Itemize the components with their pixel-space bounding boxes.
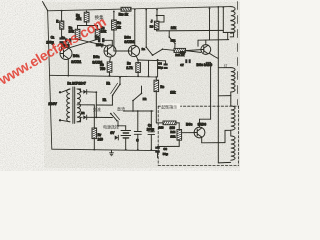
wire x210 down to BG6: [210, 62, 212, 119]
wire K2-1 to R11: [174, 44, 176, 49]
svg-text:BG5 3AD6: BG5 3AD6: [197, 63, 213, 67]
wire K1 pole to mid rail: [119, 78, 121, 85]
resistor R2: [75, 29, 80, 39]
transformer T1 core: [73, 87, 75, 123]
svg-text:R13: R13: [159, 126, 165, 130]
wire top positive rail: [48, 7, 231, 11]
capacitor C7: [185, 59, 190, 63]
svg-text:3AX31: 3AX31: [124, 40, 134, 44]
svg-text:200μ: 200μ: [147, 128, 154, 132]
relay coil J loop: [157, 16, 164, 23]
wire bus y111: [123, 110, 153, 112]
wire up to tap: [224, 130, 226, 142]
wire R5 to mid rail: [109, 72, 111, 76]
wire switch node down: [157, 60, 159, 77]
svg-text:R14: R14: [170, 130, 176, 134]
svg-text:交流: 交流: [93, 106, 101, 112]
wire: [80, 117, 82, 122]
svg-text:J: J: [151, 20, 153, 24]
wire C8 to ground rail: [137, 134, 139, 150]
wire x223 from rail: [222, 7, 224, 30]
wire mid emitter rail: [49, 75, 157, 77]
resistor R8 12k: [154, 80, 159, 91]
svg-text:2k: 2k: [117, 25, 121, 29]
wire to C8: [137, 111, 139, 131]
svg-text:2.7k: 2.7k: [126, 66, 132, 70]
winding T2 S4: [231, 106, 235, 130]
svg-text:230V: 230V: [48, 102, 57, 106]
wire center tap: [77, 104, 94, 106]
wire R14 down: [178, 140, 180, 146]
svg-text:R10 1k: R10 1k: [119, 12, 129, 16]
wire C3 to BG2: [105, 39, 113, 41]
wire D1 out: [87, 91, 97, 93]
winding T2 S2: [231, 21, 235, 33]
wire to C6: [158, 145, 180, 147]
svg-text:50μ: 50μ: [163, 152, 168, 156]
wire R9 to ladder: [156, 30, 158, 31]
wire mains top: [61, 89, 70, 92]
wire rectifier join: [95, 92, 97, 117]
wire hook down: [165, 61, 167, 64]
wire to battery: [118, 125, 126, 127]
transistor BG3 3AX31: [128, 45, 139, 56]
wire BG3 emitter: [136, 56, 138, 60]
wire lower bus left: [96, 116, 112, 118]
svg-text:6V: 6V: [110, 131, 115, 135]
wire BG6 base to R14: [182, 132, 195, 134]
svg-text:3AX31: 3AX31: [71, 60, 81, 64]
wire to R2: [77, 26, 79, 30]
wire emitter right: [202, 142, 225, 144]
capacitor C4 20u: [164, 63, 168, 69]
switch K1 pole B: [110, 113, 118, 122]
diode D2: [83, 115, 86, 119]
wire tap S3 bottom: [218, 95, 231, 97]
antenna mark top-left: [43, 2, 48, 11]
svg-text:390: 390: [170, 126, 176, 130]
wire x218 full drop: [217, 7, 219, 163]
svg-text:12k: 12k: [170, 135, 175, 139]
label indicator: [161, 103, 180, 109]
wire rail down x209: [209, 8, 211, 40]
resistor R11 1k: [174, 48, 186, 52]
battery 6V: [121, 131, 131, 150]
wire vertical x227: [227, 33, 229, 40]
wire R8 down: [155, 92, 157, 123]
svg-text:起辉指示: 起辉指示: [161, 103, 177, 109]
relay contact J1: [145, 46, 153, 55]
transformer T1 secondary: [77, 89, 81, 122]
winding T2 S5: [231, 136, 235, 160]
wire cross R3 to BG1 base: [68, 39, 98, 48]
capacitor C6 50u: [155, 147, 160, 153]
capacitor C3 160u: [98, 38, 105, 42]
wire top rail down to R: [61, 11, 63, 21]
resistor R4 2k: [112, 20, 117, 30]
capacitor C8: [134, 132, 141, 135]
svg-text:BG6: BG6: [186, 123, 193, 127]
svg-text:47k: 47k: [76, 17, 82, 21]
wire R1 bottom: [86, 22, 88, 26]
wire K2-3 down to bus: [132, 101, 134, 111]
wire to x210: [200, 118, 211, 120]
wire BG5 emitter diagonal: [209, 53, 218, 58]
wire x223 stub: [222, 30, 224, 32]
switch K1 pole B second bar: [114, 113, 120, 120]
wire up to contact: [111, 96, 113, 106]
wire R11 to BG5 base: [186, 50, 201, 51]
wire base-supply node: [78, 25, 98, 27]
wire CT down: [93, 105, 95, 128]
wire rail to relay node: [156, 10, 158, 16]
resistor R3: [95, 29, 100, 39]
wire R11 to BG5 base: [186, 51, 201, 53]
dashed box lamp indicator: [158, 106, 238, 165]
wire down to mid rail: [148, 61, 150, 77]
wire S3 join: [230, 92, 232, 96]
svg-text:2a: 2a: [142, 47, 146, 51]
wire S4-S5 link: [230, 130, 232, 136]
svg-text:20μ: 20μ: [157, 66, 162, 70]
resistor R: [60, 21, 64, 29]
resistor R13 390: [163, 121, 176, 125]
wire battery top: [125, 126, 127, 131]
resistor R9 22k: [154, 21, 159, 29]
wire tap S3 top: [218, 67, 231, 69]
wire stub: [206, 61, 211, 63]
wire secondary top: [77, 88, 81, 90]
svg-text:R12: R12: [180, 51, 186, 55]
svg-text:BG3: BG3: [124, 36, 131, 40]
wire R6 to mid rail: [137, 72, 139, 76]
wire R13 to R14: [176, 122, 179, 124]
svg-text:160μ: 160μ: [96, 43, 103, 47]
ground: [110, 150, 114, 155]
wire down to base node: [197, 40, 199, 46]
capacitor C1 200u: [59, 37, 63, 43]
resistor R1: [84, 12, 89, 22]
switch K2-2: [152, 48, 163, 55]
wire BG2 collector up: [111, 40, 113, 46]
wire rail down to contact J1: [145, 9, 147, 46]
resistor R6 2.7k: [136, 63, 141, 73]
wire BG1 collector up: [67, 42, 69, 48]
wire R to C1: [61, 29, 63, 37]
svg-text:22k: 22k: [171, 26, 177, 30]
wire R7 to ground rail: [93, 139, 95, 150]
capacitor C5 200u: [148, 132, 155, 135]
wire mains bottom: [61, 120, 70, 122]
wire to S4 bottom: [225, 129, 231, 131]
switch K2-3: [132, 93, 142, 102]
switch K2-1: [168, 36, 175, 44]
svg-text:750: 750: [100, 67, 106, 71]
transistor BG1 3AX31: [60, 48, 72, 60]
wire to R3: [97, 26, 99, 30]
transistor BG5 3AD6: [201, 45, 211, 55]
svg-text:D1 2CP21×7: D1 2CP21×7: [67, 82, 86, 86]
wire C1 to BG1 base: [61, 44, 63, 50]
wire K2-3 up: [141, 86, 143, 93]
page edge dashed right: [236, 2, 238, 106]
winding T2 S3: [231, 68, 235, 92]
wire D2 out: [87, 116, 97, 118]
capacitor C2 100u: [65, 38, 71, 42]
wire BG6 collector up: [199, 119, 201, 127]
wire left supply rail: [48, 10, 52, 149]
wire BG2 emitter to R5: [109, 57, 112, 62]
winding T2 S1: [231, 7, 235, 21]
resistor R10 1k on top rail: [121, 7, 131, 11]
svg-text:240: 240: [98, 138, 104, 142]
transistor BG2 3AX31: [104, 45, 116, 57]
wire R1 top: [86, 11, 88, 12]
svg-text:3AD6: 3AD6: [198, 123, 207, 127]
wire R4 down: [113, 30, 115, 51]
wire to BG3 base: [114, 50, 129, 52]
wire pole B down: [117, 121, 119, 126]
wire BG5 collector up: [205, 40, 207, 45]
wire S3-S4 link: [230, 96, 232, 106]
wire collector tap line: [198, 39, 229, 42]
svg-text:电源选择: 电源选择: [103, 124, 119, 130]
wire secondary bottom: [77, 121, 81, 123]
transistor BG6 3AD6: [194, 127, 205, 138]
wire mid rail to R8: [155, 77, 157, 80]
resistor R5 750: [107, 62, 112, 72]
switch K1 pole A: [112, 83, 121, 96]
wire rail to R4: [113, 11, 115, 20]
wire to winding S5 bottom: [218, 161, 230, 164]
wire to R6: [137, 60, 139, 63]
diode D3: [115, 135, 119, 140]
wire C5 to ground rail: [150, 135, 152, 150]
wire BG1 emitter to mid rail: [67, 59, 69, 76]
transformer T1 primary: [67, 89, 70, 122]
wire cross R2 to BG2 base: [78, 39, 109, 46]
wire BG6 emitter down: [201, 137, 203, 143]
wire C6 down: [157, 153, 159, 158]
tap S2: [230, 32, 232, 34]
wire: [81, 116, 83, 118]
svg-text:BG2: BG2: [93, 55, 100, 59]
wire top rail to BG3 collector: [134, 9, 136, 45]
wire ladder to K2-1: [168, 31, 170, 37]
wire bottom ground rail: [52, 149, 157, 150]
wire: [80, 89, 82, 92]
resistor R14 12k: [177, 130, 182, 141]
wire down to R14: [178, 123, 180, 130]
wire bus to C5: [150, 111, 152, 132]
svg-text:直流: 直流: [117, 106, 125, 112]
svg-text:K21: K21: [171, 39, 177, 43]
wire: [81, 91, 83, 93]
wire emitter node right: [138, 59, 166, 62]
svg-text:12k: 12k: [170, 90, 176, 94]
diode D1: [83, 90, 86, 94]
svg-text:BG1: BG1: [73, 54, 80, 58]
switch K1 pole A second bar: [111, 83, 118, 93]
resistor R7 240: [92, 128, 97, 139]
wire to R13: [156, 122, 163, 124]
wire tap hook into winding: [223, 32, 233, 37]
wire ladder A: [157, 29, 223, 32]
wire rect out to K1: [96, 104, 112, 106]
wire to R11: [163, 49, 175, 50]
